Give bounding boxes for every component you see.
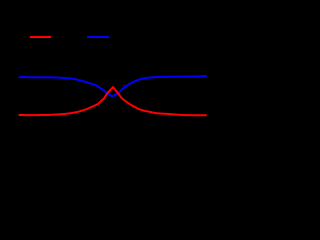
legend blue line — [87, 36, 109, 38]
red curve — [19, 87, 206, 115]
legend red line — [30, 36, 51, 38]
blue curve — [19, 76, 206, 97]
